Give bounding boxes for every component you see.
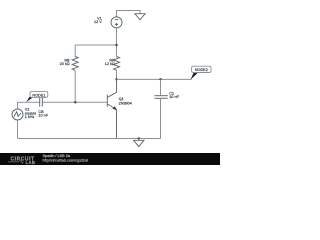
wire CB to base (43, 101, 108, 103)
wire RK bottom to collector node (116, 70, 118, 79)
node junction at C1 tap (159, 78, 161, 80)
resistor RK (114, 57, 120, 71)
node junction RB/base (74, 101, 76, 103)
voltage source V2 (12, 109, 23, 120)
svg-text:10 nF: 10 nF (169, 95, 179, 99)
node junction at bus/V1 (115, 44, 117, 46)
node junction collector (115, 78, 117, 80)
label V1 12 V (94, 16, 102, 23)
svg-text:Q1: Q1 (119, 97, 124, 101)
svg-text:12 V: 12 V (94, 20, 102, 24)
wire collector node to NODE2 (117, 78, 192, 80)
wire V2 top to base wire (17, 102, 19, 109)
node junction ground tap (138, 137, 140, 139)
svg-text:NODE2: NODE2 (195, 68, 208, 72)
wire bottom bus (18, 138, 161, 140)
ground (bottom) (134, 140, 144, 146)
CircuitLab logo (8, 156, 35, 165)
wire V1 bottom down through bus corner to RK top (116, 28, 118, 57)
label RB 20 kOhm (60, 58, 70, 66)
svg-text:10 nF: 10 nF (38, 114, 48, 118)
wire C1 top (160, 79, 162, 95)
footer text (43, 154, 89, 163)
svg-text:12 kΩ: 12 kΩ (105, 62, 115, 66)
wire C1 bottom (160, 98, 162, 138)
capacitor C1 (154, 96, 167, 99)
svg-text:20 kΩ: 20 kΩ (60, 62, 70, 66)
node NODE2 tag (190, 66, 211, 80)
ground (top) (135, 14, 145, 20)
footer bar (0, 153, 220, 165)
capacitor CB (40, 98, 43, 107)
wire ground stub (bottom) (138, 139, 140, 141)
label V2 square 1 kHz (25, 108, 37, 119)
wire RB bottom to base node (74, 70, 76, 102)
label Q1 2N3904 (119, 97, 132, 106)
voltage source V1 (111, 17, 122, 28)
node NODE1 tag (26, 92, 47, 102)
wire V2 bottom to bottom bus (17, 120, 19, 139)
wire top bus (75, 44, 116, 46)
wire base from source through CB (18, 101, 40, 103)
label C1 10 nF (169, 92, 179, 100)
wire RB top (74, 45, 76, 57)
svg-text:NODE1: NODE1 (32, 93, 45, 97)
svg-text:Spadin / LKB 2a: Spadin / LKB 2a (43, 154, 71, 158)
label RK 12 kOhm (105, 58, 115, 66)
svg-text:LAB: LAB (26, 160, 36, 165)
label CB 10 nF (38, 110, 48, 118)
svg-text:2N3904: 2N3904 (119, 102, 132, 106)
svg-text:http//circuitlab.com/cgs2bsl: http//circuitlab.com/cgs2bsl (43, 159, 89, 163)
transistor Q1 (107, 79, 117, 138)
svg-text:1 kHz: 1 kHz (25, 115, 35, 119)
resistor RB (72, 57, 78, 71)
wire top rail V1 to ground (117, 11, 141, 17)
